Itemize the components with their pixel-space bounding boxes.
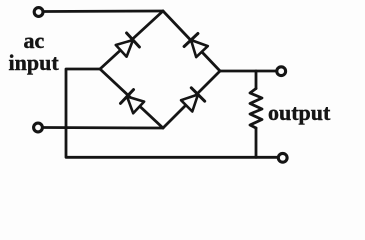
wire: bridge right vertex to positive output terminal <box>220 70 277 73</box>
label: input <box>9 52 59 74</box>
label: output <box>268 102 330 124</box>
label: ac <box>24 30 45 52</box>
bridge edge: left vertex to bottom vertex <box>100 69 163 128</box>
diode D4 (bottom-right arm, points to right vertex) <box>181 88 205 112</box>
terminal: ac input bottom <box>34 123 43 132</box>
wire: ac bottom terminal to bridge bottom vertex <box>44 126 163 129</box>
wire top: from ac top terminal to bridge top vertex <box>44 10 163 13</box>
bridge edge: top vertex to right vertex <box>163 11 220 71</box>
diode D1 (left-top arm, points to top vertex) <box>116 33 140 57</box>
bridge edge: bottom vertex to right vertex <box>163 71 220 128</box>
terminal: ac input top <box>34 8 43 17</box>
terminal: output positive <box>277 67 286 76</box>
diode D3 (bottom-left arm, points to left vertex) <box>121 90 145 114</box>
wire: resistor top lead <box>255 71 258 89</box>
resistor R load zigzag <box>250 89 262 129</box>
wire: resistor bottom lead <box>255 128 258 157</box>
bridge edge: left vertex to top vertex <box>100 11 163 69</box>
wire: bridge left vertex stub, left vertical drop, bottom rail <box>66 69 278 157</box>
diode D2 (top-right arm, points to top vertex) <box>184 34 208 58</box>
terminal: output negative <box>278 153 287 162</box>
